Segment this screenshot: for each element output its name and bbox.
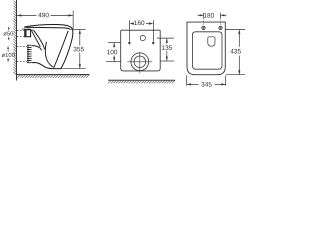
label 100 <box>107 50 117 55</box>
label 160 <box>134 21 144 26</box>
bowl front inner <box>54 31 68 68</box>
front view body <box>121 30 161 71</box>
water inlet circle <box>140 35 145 40</box>
seat lid bottom <box>24 27 70 29</box>
dimension 345 <box>187 75 226 85</box>
bowl inner curve <box>45 42 53 68</box>
outlet centerlines <box>127 52 152 73</box>
flush connection box <box>25 30 31 37</box>
dimension 180 <box>198 13 227 18</box>
dashed lines o50 pipe <box>17 30 25 36</box>
dimension o100 <box>7 46 9 61</box>
dimension 490 arrows <box>17 14 22 16</box>
extension line right of 490 <box>72 11 74 29</box>
label 490 <box>38 13 48 18</box>
bowl front outer <box>61 30 73 69</box>
dimension 160 bars <box>129 20 153 41</box>
flush opening shield <box>208 37 215 46</box>
bowl bottom <box>32 63 61 69</box>
dimension 355 refs <box>61 29 86 68</box>
floor left view <box>17 74 90 76</box>
dimension 160 arrows <box>129 22 134 24</box>
label 135 <box>162 45 172 50</box>
label 435 <box>230 49 240 54</box>
wall hatch <box>14 1 17 75</box>
top view seat rim <box>192 32 222 69</box>
label o100 <box>2 53 15 57</box>
top view outer body <box>187 22 225 75</box>
outlet circle inner <box>134 56 146 68</box>
dashed lines o100 pipe <box>17 46 27 61</box>
label 345 <box>201 82 211 87</box>
floor hatch left <box>17 75 89 78</box>
fixing holes top view <box>202 26 205 29</box>
dimension 435 refs <box>225 30 245 75</box>
outlet bellows <box>27 45 32 63</box>
dimension 135 <box>157 38 174 61</box>
label o50 <box>3 31 13 35</box>
dimension 490 line <box>17 14 73 16</box>
floor middle view <box>108 79 175 81</box>
dimension o50 <box>8 27 10 40</box>
label 180 <box>204 13 214 18</box>
pan back ledge <box>22 28 31 30</box>
flush pipe diagonal A <box>31 30 40 47</box>
dimension 100 <box>106 43 121 62</box>
flush pipe diagonal B <box>34 30 45 49</box>
label 355 <box>74 47 84 52</box>
trap top curve <box>32 46 42 51</box>
floor hatch middle <box>108 80 175 83</box>
fixing bolts front view <box>129 42 131 44</box>
outlet circle outer <box>131 53 149 71</box>
seat lid top <box>24 24 72 29</box>
wall <box>16 0 18 81</box>
text labels <box>2 13 241 87</box>
